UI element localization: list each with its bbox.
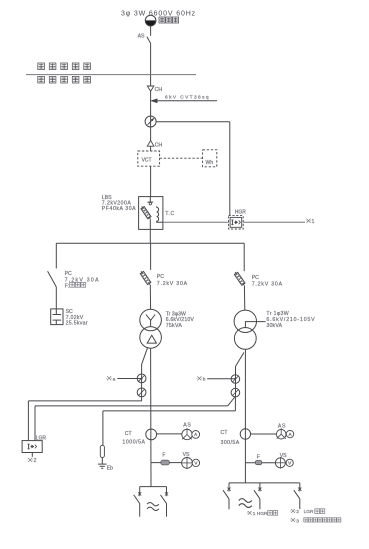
svg-text:75kVA: 75kVA [166,323,183,329]
svg-text:300/5A: 300/5A [221,440,240,446]
svg-text:PF40kA 30A: PF40kA 30A [102,206,136,212]
svg-text:PC: PC [65,271,72,277]
svg-text:CT: CT [125,431,133,437]
svg-text:HGR: HGR [235,209,247,215]
svg-text:7.2kV 30A: 7.2kV 30A [252,282,283,288]
svg-text:CT: CT [221,430,229,436]
svg-text:1: 1 [312,219,315,225]
svg-text:VS: VS [183,452,190,458]
svg-text:VS: VS [280,453,287,459]
svg-text:F:: F: [65,283,70,289]
svg-text:AS: AS [183,422,191,428]
svg-text:Eb: Eb [107,465,113,471]
svg-text:CH: CH [155,142,163,148]
svg-text:25.5kvar: 25.5kvar [66,321,88,327]
svg-text:CH: CH [155,87,163,93]
svg-text:LGR: LGR [36,436,47,442]
svg-text:a: a [113,377,116,382]
svg-text:3: 3 [296,518,299,524]
svg-text:1 HGR: 1 HGR [253,511,268,517]
svg-text:Wh: Wh [206,160,214,166]
svg-text:VCT: VCT [142,157,152,163]
svg-text:Tr 1φ3W: Tr 1φ3W [266,311,289,317]
svg-text:PC: PC [252,275,259,281]
svg-text:2: 2 [34,458,37,464]
svg-text:3φ 3W 6600V 60Hz: 3φ 3W 6600V 60Hz [121,10,196,17]
svg-text:AS: AS [278,423,286,429]
svg-text:b: b [203,377,206,383]
svg-text:2: 2 [296,509,299,515]
svg-text:6kV CVT38sq: 6kV CVT38sq [165,94,210,100]
svg-text:T.C: T.C [165,211,175,217]
svg-text:1000/5A: 1000/5A [122,440,145,446]
svg-text:F: F [162,452,165,458]
svg-text:30kVA: 30kVA [266,323,282,329]
svg-text:7.2kV 30A: 7.2kV 30A [157,281,188,287]
svg-text:AS: AS [138,33,145,39]
svg-text:F: F [257,454,260,460]
svg-text:PC: PC [157,274,164,280]
svg-text:LGR: LGR [304,509,314,515]
